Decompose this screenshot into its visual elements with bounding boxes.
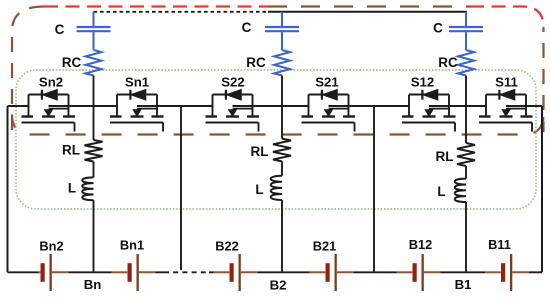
svg-text:Bn: Bn — [84, 277, 102, 292]
wire mid tap between S21 and S12 — [373, 106, 375, 272]
wire inductor L3 down to battery string — [465, 202, 467, 272]
wire rail junction down to resistor RL3 — [465, 106, 467, 143]
battery B22 — [214, 254, 258, 291]
svg-text:RC: RC — [438, 55, 458, 70]
wire from top bus to capacitor C3 — [465, 12, 467, 27]
red dashed module boundary box (right edge) — [542, 27, 544, 132]
mosfet Sn2 with body diode — [22, 89, 76, 131]
battery B21 — [310, 254, 354, 291]
svg-text:RL: RL — [251, 144, 269, 159]
svg-text:B1: B1 — [455, 277, 472, 292]
mosfet Sn1 with body diode — [110, 89, 164, 131]
wire capacitor C3 to resistor RC3 — [465, 31, 467, 50]
battery Bn2 — [39, 254, 69, 291]
wire from top bus to capacitor C2 — [281, 12, 283, 27]
wire top bus solid segment — [268, 11, 467, 13]
capacitor C3 — [449, 27, 483, 31]
wire RC2 down to rail junction — [281, 76, 283, 107]
wire source rail segments — [8, 105, 543, 107]
svg-text:C: C — [242, 20, 252, 35]
capacitor C1 — [77, 27, 111, 31]
wire battery string (black segments) — [8, 271, 543, 273]
wire RL3 to inductor L3 — [465, 166, 467, 179]
svg-text:B22: B22 — [215, 239, 238, 254]
wire RC3 down to rail junction — [465, 76, 467, 107]
wire top bus dotted segment — [94, 11, 269, 13]
mosfet S12 with body diode — [402, 89, 456, 131]
inductor L3 — [455, 179, 466, 202]
svg-text:RC: RC — [246, 55, 266, 70]
resistor RC1 — [86, 50, 102, 76]
svg-text:RL: RL — [436, 149, 454, 164]
svg-text:C: C — [433, 21, 443, 36]
resistor RC2 — [274, 50, 290, 76]
resistor RL1 — [85, 140, 103, 161]
mosfet S21 with body diode — [302, 89, 356, 131]
red dashed module boundary box (top edge, left red part) — [44, 5, 268, 7]
svg-text:S12: S12 — [411, 75, 434, 90]
svg-text:L: L — [68, 181, 76, 196]
svg-text:Sn2: Sn2 — [39, 75, 63, 90]
battery B11 — [485, 254, 529, 291]
wire inductor L2 down to battery string — [281, 200, 283, 272]
svg-text:RC: RC — [62, 55, 82, 70]
svg-text:RL: RL — [62, 143, 80, 158]
svg-text:S11: S11 — [495, 75, 518, 90]
red dashed module boundary box (left edge) — [12, 7, 44, 135]
capacitor C2 — [265, 27, 299, 31]
wire dashed continuation (omitted cells) — [164, 270, 209, 274]
resistor RL3 — [457, 143, 475, 166]
svg-text:S22: S22 — [221, 75, 244, 90]
wire RL1 to inductor L1 — [93, 162, 95, 178]
svg-text:S21: S21 — [315, 75, 338, 90]
wire RC1 down to rail junction — [93, 76, 95, 107]
svg-text:B12: B12 — [409, 237, 432, 252]
wire inductor L1 down to battery string — [93, 200, 95, 272]
battery Bn1 — [112, 254, 156, 291]
wire right edge (rail to battery string) — [541, 106, 543, 272]
svg-text:C: C — [55, 22, 65, 37]
inductor L2 — [271, 176, 282, 200]
mosfet S22 with body diode — [206, 89, 260, 131]
wire rail junction down to resistor RL1 — [93, 106, 95, 140]
svg-text:Bn2: Bn2 — [39, 239, 63, 254]
wire left edge (rail to battery string) — [7, 106, 9, 272]
red dashed module boundary box (top edge, right red part) — [470, 7, 544, 28]
wire RL2 to inductor L2 — [281, 161, 283, 175]
resistor RC3 — [458, 50, 474, 76]
svg-text:B2: B2 — [270, 278, 287, 293]
mosfet S11 with body diode — [479, 89, 533, 131]
wire rail junction down to resistor RL2 — [281, 106, 283, 139]
wire capacitor C2 to resistor RC2 — [281, 31, 283, 50]
svg-text:L: L — [255, 182, 263, 197]
wire capacitor C1 to resistor RC1 — [93, 31, 95, 50]
battery B12 — [397, 254, 441, 291]
svg-text:Bn1: Bn1 — [120, 238, 144, 253]
resistor RL2 — [273, 139, 291, 162]
wire from top bus to capacitor C1 — [93, 12, 95, 27]
svg-text:Sn1: Sn1 — [125, 75, 149, 90]
svg-text:B11: B11 — [488, 237, 511, 252]
svg-text:L: L — [437, 184, 445, 199]
green dotted converter boundary box — [16, 70, 536, 209]
red dashed module boundary box (bottom edge) — [12, 115, 544, 135]
wire mid tap between Sn1 and S22 — [180, 106, 182, 272]
inductor L1 — [82, 177, 93, 200]
red dashed module boundary box (top edge, middle part) — [268, 5, 470, 7]
svg-text:B21: B21 — [313, 239, 336, 254]
